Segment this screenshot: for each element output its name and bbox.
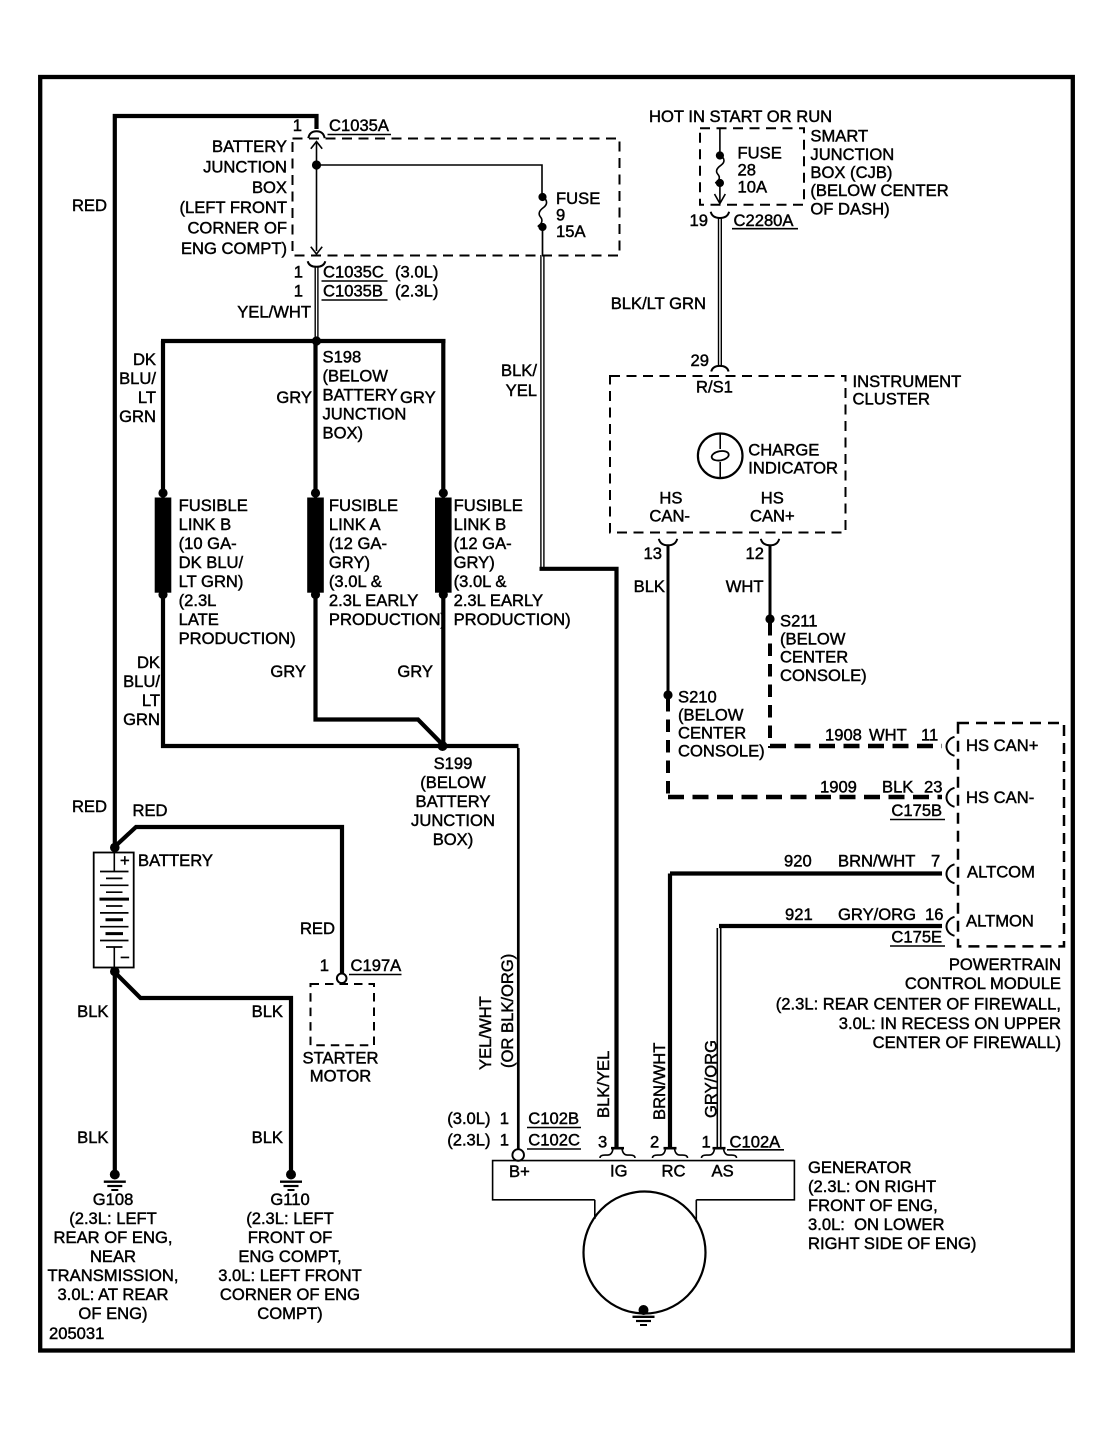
svg-text:FUSIBLE: FUSIBLE bbox=[329, 496, 398, 515]
svg-text:RED: RED bbox=[72, 797, 107, 816]
svg-text:C1035A: C1035A bbox=[329, 116, 390, 135]
svg-text:GRY: GRY bbox=[397, 662, 433, 681]
svg-text:RC: RC bbox=[662, 1162, 686, 1181]
svg-text:GRY): GRY) bbox=[329, 553, 370, 572]
svg-text:C1035B: C1035B bbox=[323, 282, 383, 301]
svg-text:(3.0L): (3.0L) bbox=[395, 263, 438, 282]
svg-text:AS: AS bbox=[712, 1162, 734, 1181]
svg-text:BOX: BOX bbox=[252, 178, 287, 197]
svg-text:CAN+: CAN+ bbox=[750, 507, 795, 526]
svg-text:(2.3L: LEFT: (2.3L: LEFT bbox=[69, 1209, 157, 1228]
svg-text:(2.3L) 1: (2.3L) 1 bbox=[447, 1131, 509, 1150]
svg-text:REAR OF ENG,: REAR OF ENG, bbox=[54, 1228, 173, 1247]
svg-text:HS CAN-: HS CAN- bbox=[966, 788, 1034, 807]
svg-text:RED: RED bbox=[133, 801, 168, 820]
svg-text:IG: IG bbox=[610, 1162, 628, 1181]
svg-text:(2.3L): (2.3L) bbox=[395, 282, 438, 301]
svg-text:7: 7 bbox=[931, 852, 940, 871]
svg-text:G110: G110 bbox=[270, 1190, 309, 1209]
svg-text:HOT IN START OR RUN: HOT IN START OR RUN bbox=[649, 107, 832, 126]
svg-text:WHT: WHT bbox=[726, 577, 764, 596]
svg-text:−: − bbox=[120, 948, 130, 967]
svg-text:LT GRN): LT GRN) bbox=[179, 572, 244, 591]
svg-text:2.3L EARLY: 2.3L EARLY bbox=[329, 591, 418, 610]
svg-text:C102B: C102B bbox=[528, 1109, 579, 1128]
svg-text:BLK: BLK bbox=[252, 1002, 283, 1021]
svg-text:1908: 1908 bbox=[825, 726, 862, 745]
svg-text:G108: G108 bbox=[93, 1190, 134, 1209]
svg-text:11: 11 bbox=[921, 726, 938, 745]
svg-text:C175E: C175E bbox=[891, 928, 942, 947]
svg-text:CENTER: CENTER bbox=[678, 724, 746, 743]
svg-text:PRODUCTION): PRODUCTION) bbox=[454, 610, 571, 629]
svg-text:921: 921 bbox=[785, 905, 813, 924]
svg-text:(3.0L) 1: (3.0L) 1 bbox=[447, 1109, 509, 1128]
svg-text:(2.3L: (2.3L bbox=[179, 591, 217, 610]
svg-text:FUSIBLE: FUSIBLE bbox=[179, 496, 248, 515]
svg-text:CLUSTER: CLUSTER bbox=[853, 390, 930, 409]
svg-text:FUSIBLE: FUSIBLE bbox=[454, 496, 523, 515]
svg-text:2: 2 bbox=[650, 1133, 659, 1152]
svg-text:GRY): GRY) bbox=[454, 553, 495, 572]
svg-text:3.0L: LEFT FRONT: 3.0L: LEFT FRONT bbox=[218, 1266, 362, 1285]
svg-text:C197A: C197A bbox=[351, 956, 403, 975]
svg-text:1: 1 bbox=[294, 263, 303, 282]
svg-text:3.0L: AT REAR: 3.0L: AT REAR bbox=[58, 1285, 169, 1304]
svg-text:BOX (CJB): BOX (CJB) bbox=[810, 163, 892, 182]
svg-text:PRODUCTION): PRODUCTION) bbox=[329, 610, 446, 629]
svg-text:GRY: GRY bbox=[400, 388, 436, 407]
svg-text:BLK/: BLK/ bbox=[501, 361, 537, 380]
svg-text:DK BLU/: DK BLU/ bbox=[179, 553, 244, 572]
svg-text:INDICATOR: INDICATOR bbox=[748, 459, 838, 478]
svg-text:PRODUCTION): PRODUCTION) bbox=[179, 629, 296, 648]
svg-text:CORNER OF: CORNER OF bbox=[187, 219, 287, 238]
svg-text:GRY: GRY bbox=[270, 662, 306, 681]
svg-text:S198: S198 bbox=[323, 348, 362, 367]
svg-text:YEL/WHT: YEL/WHT bbox=[237, 303, 311, 322]
svg-text:10A: 10A bbox=[738, 178, 768, 197]
svg-text:CENTER: CENTER bbox=[780, 648, 848, 667]
svg-text:(12 GA-: (12 GA- bbox=[454, 534, 512, 553]
svg-text:DK: DK bbox=[133, 350, 156, 369]
svg-text:BRN/WHT: BRN/WHT bbox=[650, 1043, 669, 1120]
svg-text:1909: 1909 bbox=[820, 778, 857, 797]
svg-text:DK: DK bbox=[137, 653, 160, 672]
svg-text:(BELOW: (BELOW bbox=[420, 773, 486, 792]
svg-text:HS: HS bbox=[659, 489, 682, 508]
svg-text:2.3L EARLY: 2.3L EARLY bbox=[454, 591, 543, 610]
svg-text:YEL/WHT: YEL/WHT bbox=[476, 996, 495, 1070]
svg-text:ENG COMPT,: ENG COMPT, bbox=[238, 1247, 341, 1266]
svg-text:(3.0L &: (3.0L & bbox=[454, 572, 507, 591]
svg-text:16: 16 bbox=[925, 905, 943, 924]
svg-text:BLU/: BLU/ bbox=[119, 369, 156, 388]
svg-text:(2.3L: ON RIGHT: (2.3L: ON RIGHT bbox=[808, 1177, 936, 1196]
svg-text:S210: S210 bbox=[678, 688, 717, 707]
svg-text:+: + bbox=[120, 851, 130, 870]
svg-text:(BELOW: (BELOW bbox=[780, 630, 846, 649]
svg-text:3: 3 bbox=[598, 1133, 607, 1152]
svg-text:C1035C: C1035C bbox=[323, 263, 384, 282]
svg-text:BLK: BLK bbox=[77, 1002, 108, 1021]
svg-text:HS CAN+: HS CAN+ bbox=[966, 736, 1038, 755]
svg-text:GRY: GRY bbox=[276, 388, 312, 407]
svg-text:R/S1: R/S1 bbox=[696, 378, 733, 397]
svg-text:BATTERY: BATTERY bbox=[212, 137, 287, 156]
svg-text:29: 29 bbox=[691, 351, 709, 370]
svg-text:(BELOW: (BELOW bbox=[678, 706, 744, 725]
svg-text:INSTRUMENT: INSTRUMENT bbox=[853, 372, 962, 391]
svg-text:C102C: C102C bbox=[528, 1131, 580, 1150]
svg-text:S211: S211 bbox=[780, 612, 818, 631]
svg-text:LT: LT bbox=[138, 388, 156, 407]
svg-text:BOX): BOX) bbox=[323, 424, 364, 443]
svg-text:TRANSMISSION,: TRANSMISSION, bbox=[48, 1266, 179, 1285]
svg-text:ALTCOM: ALTCOM bbox=[967, 863, 1035, 882]
svg-text:(BELOW: (BELOW bbox=[323, 367, 389, 386]
svg-text:ENG COMPT): ENG COMPT) bbox=[181, 239, 287, 258]
svg-text:15A: 15A bbox=[556, 222, 586, 241]
svg-text:WHT: WHT bbox=[869, 726, 907, 745]
svg-text:CENTER OF FIREWALL): CENTER OF FIREWALL) bbox=[873, 1033, 1061, 1052]
svg-text:BLU/: BLU/ bbox=[123, 672, 160, 691]
svg-text:1: 1 bbox=[320, 956, 329, 975]
svg-text:LINK A: LINK A bbox=[329, 515, 382, 534]
svg-text:3.0L: ON LOWER: 3.0L: ON LOWER bbox=[808, 1215, 944, 1234]
svg-text:BLK/LT GRN: BLK/LT GRN bbox=[611, 294, 706, 313]
svg-text:NEAR: NEAR bbox=[90, 1247, 136, 1266]
svg-text:MOTOR: MOTOR bbox=[310, 1067, 371, 1086]
svg-text:SMART: SMART bbox=[810, 127, 868, 146]
svg-text:RIGHT SIDE OF ENG): RIGHT SIDE OF ENG) bbox=[808, 1234, 976, 1253]
svg-text:GRY/ORG: GRY/ORG bbox=[701, 1040, 720, 1118]
svg-text:(2.3L: LEFT: (2.3L: LEFT bbox=[246, 1209, 334, 1228]
svg-text:BLK: BLK bbox=[252, 1128, 283, 1147]
svg-text:C175B: C175B bbox=[891, 801, 942, 820]
svg-text:1: 1 bbox=[293, 116, 302, 135]
svg-text:CONSOLE): CONSOLE) bbox=[780, 666, 867, 685]
svg-text:CONSOLE): CONSOLE) bbox=[678, 742, 765, 761]
svg-text:13: 13 bbox=[644, 544, 662, 563]
svg-text:BLK: BLK bbox=[882, 778, 913, 797]
svg-text:POWERTRAIN: POWERTRAIN bbox=[949, 955, 1061, 974]
svg-text:ALTMON: ALTMON bbox=[966, 912, 1034, 931]
svg-text:COMPT): COMPT) bbox=[257, 1304, 322, 1323]
svg-text:LINK B: LINK B bbox=[179, 515, 232, 534]
svg-text:JUNCTION: JUNCTION bbox=[323, 405, 407, 424]
svg-text:GRN: GRN bbox=[123, 710, 160, 729]
svg-text:(10 GA-: (10 GA- bbox=[179, 534, 237, 553]
svg-text:HS: HS bbox=[761, 489, 784, 508]
svg-text:1: 1 bbox=[294, 282, 303, 301]
svg-text:LT: LT bbox=[142, 691, 160, 710]
svg-text:920: 920 bbox=[784, 852, 812, 871]
svg-text:LINK B: LINK B bbox=[454, 515, 507, 534]
svg-text:1: 1 bbox=[702, 1133, 711, 1152]
svg-text:OF DASH): OF DASH) bbox=[810, 199, 889, 218]
svg-text:(OR BLK/ORG): (OR BLK/ORG) bbox=[498, 954, 517, 1068]
svg-text:CAN-: CAN- bbox=[649, 507, 690, 526]
svg-text:BATTERY: BATTERY bbox=[323, 386, 398, 405]
svg-text:12: 12 bbox=[746, 544, 764, 563]
svg-text:3.0L: IN RECESS ON UPPER: 3.0L: IN RECESS ON UPPER bbox=[839, 1014, 1061, 1033]
svg-text:(2.3L: REAR CENTER OF FIREWALL: (2.3L: REAR CENTER OF FIREWALL, bbox=[776, 995, 1061, 1014]
svg-text:BATTERY: BATTERY bbox=[416, 792, 491, 811]
svg-text:JUNCTION: JUNCTION bbox=[810, 145, 894, 164]
svg-text:BRN/WHT: BRN/WHT bbox=[838, 852, 915, 871]
svg-text:205031: 205031 bbox=[49, 1324, 104, 1343]
svg-text:YEL: YEL bbox=[506, 381, 537, 400]
svg-text:CORNER OF ENG: CORNER OF ENG bbox=[220, 1285, 360, 1304]
svg-text:BATTERY: BATTERY bbox=[138, 851, 213, 870]
svg-text:23: 23 bbox=[924, 778, 942, 797]
svg-text:JUNCTION: JUNCTION bbox=[411, 811, 495, 830]
svg-text:STARTER: STARTER bbox=[303, 1049, 379, 1068]
svg-text:(BELOW CENTER: (BELOW CENTER bbox=[810, 181, 948, 200]
svg-text:BOX): BOX) bbox=[433, 830, 474, 849]
svg-text:BLK: BLK bbox=[634, 577, 665, 596]
svg-text:RED: RED bbox=[72, 196, 107, 215]
svg-text:(LEFT FRONT: (LEFT FRONT bbox=[179, 198, 287, 217]
svg-text:GRN: GRN bbox=[119, 407, 156, 426]
svg-text:BLK/YEL: BLK/YEL bbox=[594, 1051, 613, 1118]
svg-text:RED: RED bbox=[300, 919, 335, 938]
svg-text:(3.0L &: (3.0L & bbox=[329, 572, 382, 591]
svg-text:GRY/ORG: GRY/ORG bbox=[838, 905, 916, 924]
svg-text:C102A: C102A bbox=[730, 1133, 782, 1152]
svg-text:S199: S199 bbox=[434, 754, 473, 773]
svg-text:C2280A: C2280A bbox=[734, 211, 795, 230]
svg-text:CONTROL MODULE: CONTROL MODULE bbox=[905, 974, 1061, 993]
svg-text:GENERATOR: GENERATOR bbox=[808, 1158, 912, 1177]
svg-text:OF ENG): OF ENG) bbox=[78, 1304, 147, 1323]
svg-text:LATE: LATE bbox=[179, 610, 219, 629]
svg-text:(12 GA-: (12 GA- bbox=[329, 534, 387, 553]
svg-text:CHARGE: CHARGE bbox=[748, 441, 819, 460]
svg-text:B+: B+ bbox=[509, 1162, 530, 1181]
svg-text:BLK: BLK bbox=[77, 1128, 108, 1147]
svg-text:19: 19 bbox=[690, 211, 708, 230]
svg-text:FRONT OF: FRONT OF bbox=[248, 1228, 333, 1247]
svg-text:JUNCTION: JUNCTION bbox=[203, 157, 287, 176]
svg-text:FRONT OF ENG,: FRONT OF ENG, bbox=[808, 1196, 938, 1215]
